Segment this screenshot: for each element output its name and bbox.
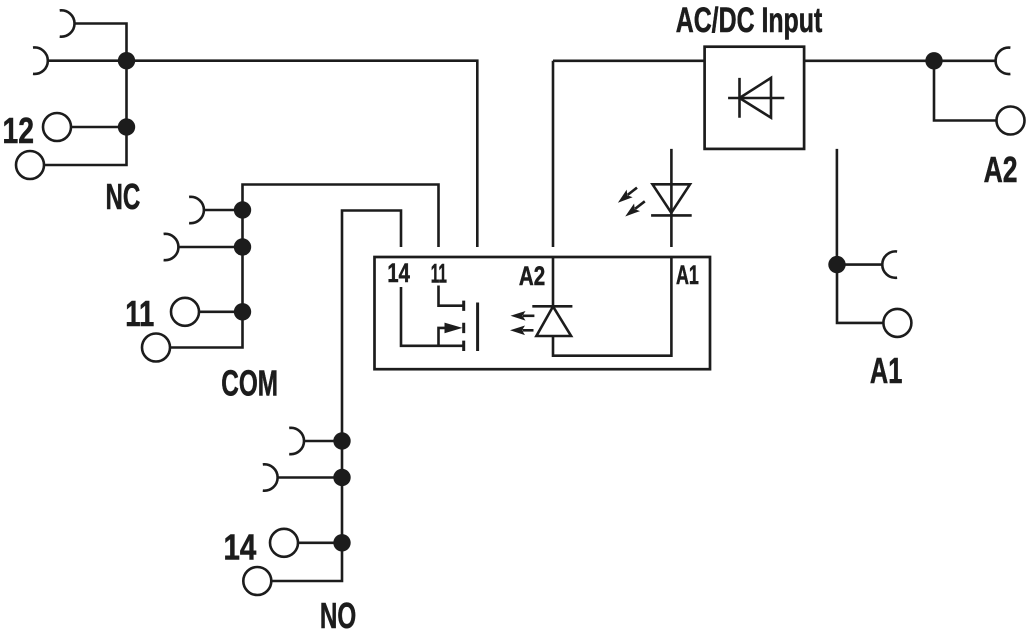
relay output/opto box U1 (375, 257, 711, 369)
indicator LED light arrow 1 (628, 188, 637, 195)
wire COM arc1 to bus (204, 209, 243, 212)
junction dot NO row1 (333, 432, 350, 449)
terminal arc COM row2 (164, 234, 179, 260)
svg-text:A2: A2 (519, 261, 545, 291)
MOSFET Q1 channel contact ticks (462, 301, 465, 351)
junction dot COM row1 (234, 201, 251, 218)
rectifier box AC/DC (705, 47, 805, 149)
opto light arrow 1 (523, 314, 534, 317)
svg-text:14: 14 (387, 258, 410, 288)
terminal arc A2 (996, 48, 1011, 74)
terminal circle COM row4 (142, 334, 170, 362)
wire A1 dot to circle row (837, 265, 883, 323)
wire NO circle1 (14) to bus (298, 541, 342, 544)
wire NO arc2 to bus (278, 476, 342, 479)
wire A1 dot to arc (837, 263, 882, 266)
wire A2 rail: box left to terminal arc (553, 59, 705, 62)
wire NO arc1 to bus (304, 440, 342, 443)
indicator LED D3 cathode bar (651, 214, 692, 217)
wire LED to bottom rail (553, 257, 671, 356)
wire A2 dot to circle row (934, 61, 997, 121)
junction dot A2 (925, 52, 942, 69)
wire NC circle1 (12) to bus (71, 126, 127, 129)
terminal circle 14 (270, 529, 298, 557)
terminal arc NO row1 (289, 428, 304, 454)
svg-text:12: 12 (2, 110, 34, 151)
svg-text:A2: A2 (984, 149, 1018, 190)
terminal arc NC row1 (60, 10, 75, 36)
opto light arrow 2 (523, 329, 534, 332)
wire NO group: box pin 14 up, left, bus down, to circle2 (272, 211, 402, 582)
wire pin 11 internal (439, 286, 463, 306)
terminal arc NC row2 (33, 48, 48, 74)
junction dot COM row3 (234, 303, 251, 320)
svg-text:NO: NO (320, 595, 356, 632)
wire pin A2 internal (552, 257, 555, 307)
svg-text:NC: NC (106, 176, 141, 217)
wire COM group: box pin 11 up, left, bus down, to circle2 (170, 185, 439, 348)
wire rectifier bottom-left to indicator LED and A1 pin (670, 149, 673, 247)
wire NC group bus: arc1 wire, bus down, wire to circle2 (44, 24, 126, 166)
junction dot NO row3 (333, 534, 350, 551)
rectifier diode D1 (728, 78, 784, 118)
svg-text:A1: A1 (676, 260, 699, 290)
MOSFET Q1 gate bar (476, 303, 479, 352)
wire NC arc2 to bus (48, 59, 127, 62)
junction dot NC row2 (118, 52, 135, 69)
terminal arc COM row1 (189, 197, 204, 223)
terminal circle NO row4 (243, 567, 271, 595)
opto LED D2 triangle (536, 307, 571, 337)
terminal circle A1 (883, 309, 911, 337)
terminal arc A1 (882, 251, 897, 277)
svg-text:A1: A1 (870, 350, 902, 391)
wire COM arc2 to bus (178, 246, 242, 249)
MOSFET Q1 body stub (439, 328, 447, 346)
terminal circle 12 (43, 113, 71, 141)
svg-text:11: 11 (125, 293, 154, 334)
wire pin 14 internal (401, 287, 464, 346)
wire rectifier bottom-right to A1 terminals (836, 149, 839, 265)
junction dot NC row3 (118, 118, 135, 135)
svg-text:AC/DC Input: AC/DC Input (676, 1, 823, 40)
svg-text:11: 11 (431, 259, 447, 289)
terminal circle NC row4 (16, 151, 44, 179)
indicator LED D3 triangle (653, 184, 691, 213)
junction dot COM row2 (234, 238, 251, 255)
junction dot A1 (828, 256, 845, 273)
terminal arc NO row2 (263, 464, 278, 490)
indicator LED light arrow 2 (635, 201, 645, 209)
wire rectifier right to A2 terminals (804, 59, 996, 62)
terminal circle A2 (997, 107, 1025, 135)
svg-text:COM: COM (221, 363, 278, 404)
opto LED D2 cathode bar (532, 305, 572, 308)
terminal circle 11 (171, 298, 199, 326)
MOSFET Q1 body arrow (445, 323, 463, 334)
wire COM circle1 (11) to bus (199, 310, 243, 313)
wire A2 pin down (552, 61, 555, 247)
svg-text:14: 14 (224, 527, 257, 568)
wire NC bus to box pin 12 (long top wire) (127, 61, 478, 247)
junction dot NO row2 (333, 469, 350, 486)
